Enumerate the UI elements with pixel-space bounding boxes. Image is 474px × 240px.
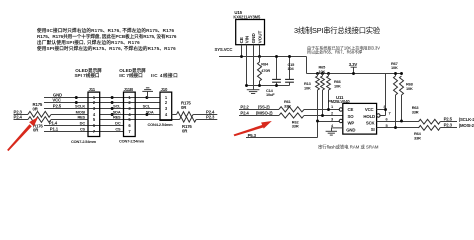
svg-text:P1.1: P1.1 <box>50 126 59 131</box>
resistor R175 (left) <box>28 111 51 117</box>
svg-text:CON4-2.54mm: CON4-2.54mm <box>148 122 174 127</box>
wire P2.4 row lead-in <box>14 119 29 121</box>
junction VCC riser <box>384 108 387 111</box>
svg-text:SO: SO <box>348 114 355 119</box>
wire step down to 3.3V rail <box>306 57 308 74</box>
U15 pin 2 stub VIN <box>246 45 248 86</box>
svg-text:CE: CE <box>239 37 244 43</box>
svg-text:SCK: SCK <box>366 121 376 126</box>
svg-text:3.3V: 3.3V <box>349 62 358 67</box>
U11 WP inversion bubble <box>339 119 342 122</box>
C14 bottom lead <box>276 82 278 85</box>
svg-text:SCL: SCL <box>113 103 121 108</box>
svg-text:GND: GND <box>346 128 355 133</box>
wire R63 to P2.5 <box>440 121 457 123</box>
svg-text:VCC: VCC <box>365 107 374 112</box>
svg-text:SPI 7线接口: SPI 7线接口 <box>74 72 99 79</box>
svg-text:IIC 4线接口: IIC 4线接口 <box>151 72 178 79</box>
junction VOUT on rail <box>258 55 261 58</box>
flash memory U11 body <box>343 103 377 134</box>
svg-text:DC: DC <box>115 120 121 125</box>
wire SCK row <box>377 121 419 123</box>
R65 bottom lead to SO row <box>322 90 324 116</box>
svg-text:CON7-2.54mm: CON7-2.54mm <box>119 138 145 143</box>
wire P1.1 bus row7 <box>44 131 124 133</box>
junction R65 on rail <box>321 72 324 75</box>
svg-text:J10: J10 <box>161 87 168 92</box>
junction R65 SO <box>321 114 324 117</box>
svg-text:WP: WP <box>348 121 355 126</box>
svg-text:使用SPI接口时只焊左边的R175、R176, 不焊右边的R: 使用SPI接口时只焊左边的R175、R176, 不焊右边的R175、R176 <box>36 45 176 52</box>
svg-text:P2.5: P2.5 <box>444 116 453 121</box>
resistor R64 <box>419 126 441 131</box>
svg-text:P2.2: P2.2 <box>240 104 249 109</box>
wire R64 to P2.3 <box>440 127 457 129</box>
svg-text:CS: CS <box>115 126 121 131</box>
wire right R176 to P2.3 <box>196 119 217 121</box>
wire row5 J11 to right R176 <box>100 119 180 121</box>
red annotation arrow 1 <box>7 117 38 151</box>
resistor R68 <box>400 76 404 95</box>
svg-text:串行flash或铁电 RAM 或 SRAM: 串行flash或铁电 RAM 或 SRAM <box>318 143 379 150</box>
junction row4 x112 <box>111 113 114 116</box>
svg-text:10K: 10K <box>319 69 326 74</box>
ground symbol below U11 <box>326 131 337 135</box>
wire R62 to SO <box>304 115 343 117</box>
junction row1 x76 <box>75 96 78 99</box>
junction VIN line on ground rail <box>245 84 248 87</box>
svg-text:10uF: 10uF <box>266 92 275 97</box>
wire J10 pin4 to right R175 <box>172 114 177 116</box>
junction R66 CE <box>327 108 330 111</box>
svg-text:P2.4: P2.4 <box>14 115 23 120</box>
svg-text:R84: R84 <box>261 62 269 67</box>
junction row1 ground stem <box>145 96 148 99</box>
svg-text:104: 104 <box>288 66 295 71</box>
svg-text:SCLK: SCLK <box>75 103 85 108</box>
R84 top lead <box>259 57 261 63</box>
R68 bottom lead to SCK row <box>401 95 403 122</box>
svg-text:(MOSI-2): (MOSI-2) <box>459 123 474 128</box>
svg-text:(SS-2): (SS-2) <box>258 104 270 109</box>
resistor R13 <box>316 76 320 90</box>
resistor R62 <box>279 113 304 118</box>
U11 CE inversion bubble <box>339 108 342 111</box>
wire SI row <box>377 127 419 129</box>
junction 3.3V port <box>352 72 355 75</box>
resistor R176 (right) <box>180 117 197 122</box>
svg-text:7: 7 <box>389 110 391 115</box>
R65 top lead <box>322 74 324 77</box>
junction row3 x112 <box>111 107 114 110</box>
svg-text:P2.3: P2.3 <box>206 115 215 120</box>
junction CE on rail <box>240 55 243 58</box>
svg-text:J11B: J11B <box>124 87 133 92</box>
J11 pin numbers 1-7 <box>93 95 96 134</box>
U11 GND stub <box>332 128 343 131</box>
junction R67 SI <box>394 126 397 129</box>
wire VCC bus row2 <box>44 102 160 104</box>
svg-text:R175、R176共用一个十字焊盘, 因此在PCB板上只有R: R175、R176共用一个十字焊盘, 因此在PCB板上只有R175, 没有R17… <box>37 33 177 40</box>
svg-text:(MISO-2): (MISO-2) <box>256 111 273 116</box>
U15 pin 4 stub VOUT <box>259 45 261 57</box>
R13 top lead <box>317 74 319 77</box>
C15 top lead <box>289 57 291 80</box>
svg-text:DC: DC <box>80 120 86 125</box>
svg-text:SYS.VCC: SYS.VCC <box>215 47 233 52</box>
R84 bottom lead <box>259 81 261 86</box>
junction R13 on rail <box>316 72 319 75</box>
connector J10 body <box>160 92 172 120</box>
svg-text:出厂默认使用SPI接口, 只焊左边的R175、R176: 出厂默认使用SPI接口, 只焊左边的R175、R176 <box>37 39 140 46</box>
wire 3.3V pull-up rail <box>307 73 402 75</box>
svg-text:RES: RES <box>77 114 85 119</box>
U11 HOLD inversion bubble <box>377 114 380 117</box>
svg-text:10K: 10K <box>334 84 341 89</box>
svg-text:10K: 10K <box>391 65 398 70</box>
resistor R65 <box>321 76 325 90</box>
svg-text:CON7-2.54mm: CON7-2.54mm <box>71 139 97 144</box>
svg-text:P1.4: P1.4 <box>49 120 58 125</box>
resistor R63 <box>419 119 441 124</box>
wire R61 to CE <box>304 109 339 111</box>
connector J11 body <box>88 92 100 136</box>
svg-text:IIC 7线接口: IIC 7线接口 <box>119 72 143 79</box>
resistor R61 <box>279 107 304 112</box>
R66 top lead <box>328 74 330 77</box>
J10 pin numbers 1-4 <box>165 95 168 117</box>
connector J11B body <box>124 92 136 136</box>
svg-text:J11: J11 <box>89 87 96 92</box>
R66 bottom lead to CE row <box>328 90 330 110</box>
wire WP row <box>318 121 340 123</box>
resistor R84 <box>258 62 262 81</box>
svg-text:VCC: VCC <box>52 97 61 102</box>
wire row4 from R175 to J11 <box>51 114 88 116</box>
svg-text:KX6211AY3M5: KX6211AY3M5 <box>233 15 261 20</box>
svg-text:3线制SPI串行总线接口实验: 3线制SPI串行总线接口实验 <box>294 26 381 35</box>
J11B pin numbers 1-7 <box>128 95 131 134</box>
junction row1 x112 <box>111 96 114 99</box>
svg-text:GND: GND <box>251 33 256 44</box>
red annotation arrow 2 <box>234 121 272 136</box>
wire P2.4 row lead-in <box>239 115 279 117</box>
svg-text:33R: 33R <box>414 136 421 141</box>
wire P5.3 row <box>246 137 318 139</box>
resistor R66 <box>327 76 331 90</box>
svg-text:33R: 33R <box>284 103 291 108</box>
resistor R175 (right) <box>177 112 194 117</box>
junction C15 top <box>288 55 291 58</box>
wire SYS.VCC rail <box>219 56 307 58</box>
svg-text:CE: CE <box>348 107 354 112</box>
ground symbol below U15 <box>247 86 260 94</box>
junction C14 top <box>275 55 278 58</box>
wire VCC stub right <box>377 109 386 111</box>
wire HOLD stub <box>380 115 385 117</box>
junction R67 rail <box>394 72 397 75</box>
svg-text:(SCLK-2): (SCLK-2) <box>459 117 474 122</box>
junction R13 WP <box>316 120 319 123</box>
capacitor C15 plates <box>285 79 294 82</box>
svg-text:33R: 33R <box>412 109 419 114</box>
svg-text:SDA: SDA <box>146 109 154 114</box>
junction R84 on ground rail <box>258 84 261 87</box>
wire P2.5 bus row3 <box>44 108 160 110</box>
C14 top lead <box>276 57 278 80</box>
wire P5.3 riser to WP <box>317 122 319 138</box>
svg-text:33R: 33R <box>292 124 299 129</box>
svg-text:RES: RES <box>113 114 121 119</box>
junction row2 x112 <box>111 101 114 104</box>
U15 pin 1 stub CE <box>241 45 243 57</box>
svg-text:P2.5: P2.5 <box>53 103 62 108</box>
wire right R175 to P2.4 <box>193 114 217 116</box>
wire ground rail <box>246 85 290 87</box>
wire row5 from R176 to J11 <box>51 119 88 121</box>
junction R68 rail <box>400 72 403 75</box>
R13 bottom lead to WP row <box>317 90 319 122</box>
svg-text:VOUT: VOUT <box>257 30 262 43</box>
wire row4 J11 to J10 <box>100 114 160 116</box>
power port 3.3V <box>351 67 357 73</box>
U15 pin 3 stub GND <box>253 45 255 86</box>
wire P2.2 row lead-in <box>239 109 279 111</box>
svg-text:CS: CS <box>80 126 86 131</box>
svg-text:SCL: SCL <box>143 103 151 108</box>
svg-text:使用IIC接口时只焊右边的R175、R176, 不焊左边的R: 使用IIC接口时只焊右边的R175、R176, 不焊左边的R175、R176 <box>36 27 175 34</box>
ground symbol above J10 <box>142 88 153 98</box>
svg-text:VIN: VIN <box>244 35 249 43</box>
junction row4 x147 <box>145 113 148 116</box>
junction C14 bottom <box>275 84 278 87</box>
regulator U15 body <box>236 20 265 45</box>
svg-text:470R: 470R <box>261 68 270 73</box>
wire VCC/HOLD riser <box>385 74 387 116</box>
svg-text:P2.3: P2.3 <box>444 123 453 128</box>
svg-text:所以此处R65、R67、R68不焊: 所以此处R65、R67、R68不焊 <box>307 49 362 55</box>
svg-text:HOLD: HOLD <box>363 114 375 119</box>
resistor R67 <box>394 76 398 95</box>
C15 bottom lead <box>289 82 291 85</box>
R67 bottom lead to SI row <box>395 95 397 128</box>
wire P2.3 row lead-in <box>14 114 29 116</box>
junction R68 SCK <box>400 120 403 123</box>
svg-text:10K: 10K <box>304 86 311 91</box>
resistor R176 (left) <box>28 117 51 123</box>
svg-text:P2.4: P2.4 <box>240 111 249 116</box>
svg-text:10K: 10K <box>406 86 413 91</box>
junction row2 x76 <box>75 101 78 104</box>
wire P1.4 bus row6 <box>44 125 124 127</box>
R67 top lead <box>395 74 397 77</box>
wire GND bus row1 <box>44 97 160 99</box>
junction R66 on rail <box>327 72 330 75</box>
svg-text:SI: SI <box>371 127 375 132</box>
capacitor C14 plates <box>272 79 281 82</box>
